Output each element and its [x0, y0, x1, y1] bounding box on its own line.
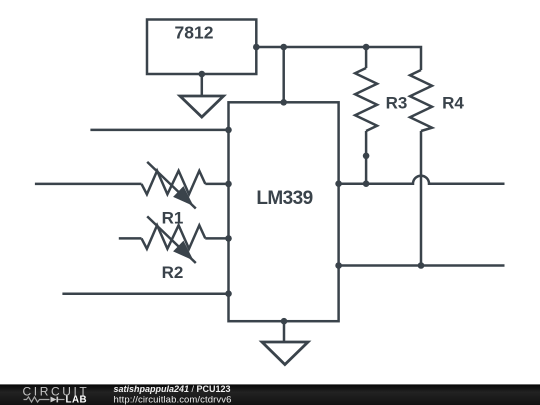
voltage regulator U2 7812: [147, 20, 256, 75]
CircuitLab logo resistor zigzag: [24, 397, 50, 402]
svg-text:satishpappula241 / PCU123: satishpappula241 / PCU123: [114, 384, 231, 394]
CircuitLab logo diode: [51, 397, 57, 403]
wire LM339 output 2 to right: [339, 264, 505, 267]
junction node to LM339 V+: [280, 44, 287, 51]
wire R1 to LM339 pin 2: [205, 183, 228, 186]
svg-text:LM339: LM339: [256, 188, 312, 209]
pin LM339 left 2: [225, 181, 232, 188]
resistor R4: [410, 70, 464, 131]
svg-text:R3: R3: [386, 94, 408, 113]
footer bar: [0, 384, 540, 405]
svg-text:LAB: LAB: [66, 395, 88, 405]
wire input A to LM339 pin 1: [90, 129, 228, 132]
ground symbol GND2 under LM339: [262, 342, 308, 365]
pin LM339 left 4: [225, 290, 232, 297]
wire R3 bottom to node: [365, 131, 368, 184]
junction node to R3: [363, 44, 370, 51]
junction R4 bottom on output wire: [418, 262, 425, 269]
wire LM339 output 1 to right with crossover hop: [339, 176, 505, 184]
wire R3 top stub: [365, 47, 368, 68]
pin LM339 top V+: [280, 99, 287, 106]
wire 7812 output to R4 top: [256, 47, 421, 70]
svg-text:http://circuitlab.com/ctdrvv6: http://circuitlab.com/ctdrvv6: [114, 394, 232, 405]
wire input B to R1: [35, 183, 142, 186]
svg-text:R2: R2: [162, 263, 184, 282]
wire input D to LM339 pin 4: [62, 292, 228, 295]
variable resistor R2: [142, 216, 206, 282]
svg-text:7812: 7812: [175, 22, 214, 42]
pin LM339 left 3: [225, 235, 232, 242]
comparator U1 LM339: [229, 102, 339, 321]
wire R4 bottom through crossover down to output node: [420, 131, 423, 266]
wire 7812 ground stub: [201, 74, 204, 96]
wire LM339 ground stub: [283, 321, 286, 342]
junction R3 bottom on output wire: [363, 180, 370, 187]
junction R3 wire node: [363, 153, 370, 160]
pin LM339 bottom ground: [281, 318, 288, 325]
ground symbol GND1 under 7812: [180, 96, 224, 117]
wire input C to R2: [119, 237, 142, 240]
wire 7812 output down to LM339 V+ pin: [282, 47, 285, 102]
junction 7812 output pin: [253, 44, 260, 51]
wire R2 to LM339 pin 3: [205, 237, 228, 240]
pin LM339 right output 1: [335, 180, 342, 187]
variable resistor R1: [142, 162, 206, 228]
svg-text:R1: R1: [162, 209, 184, 228]
svg-text:R4: R4: [442, 94, 464, 113]
pin LM339 right output 2: [335, 262, 342, 269]
resistor R3: [355, 68, 407, 131]
junction 7812 ground pin: [199, 71, 206, 78]
pin LM339 left 1: [225, 127, 232, 134]
